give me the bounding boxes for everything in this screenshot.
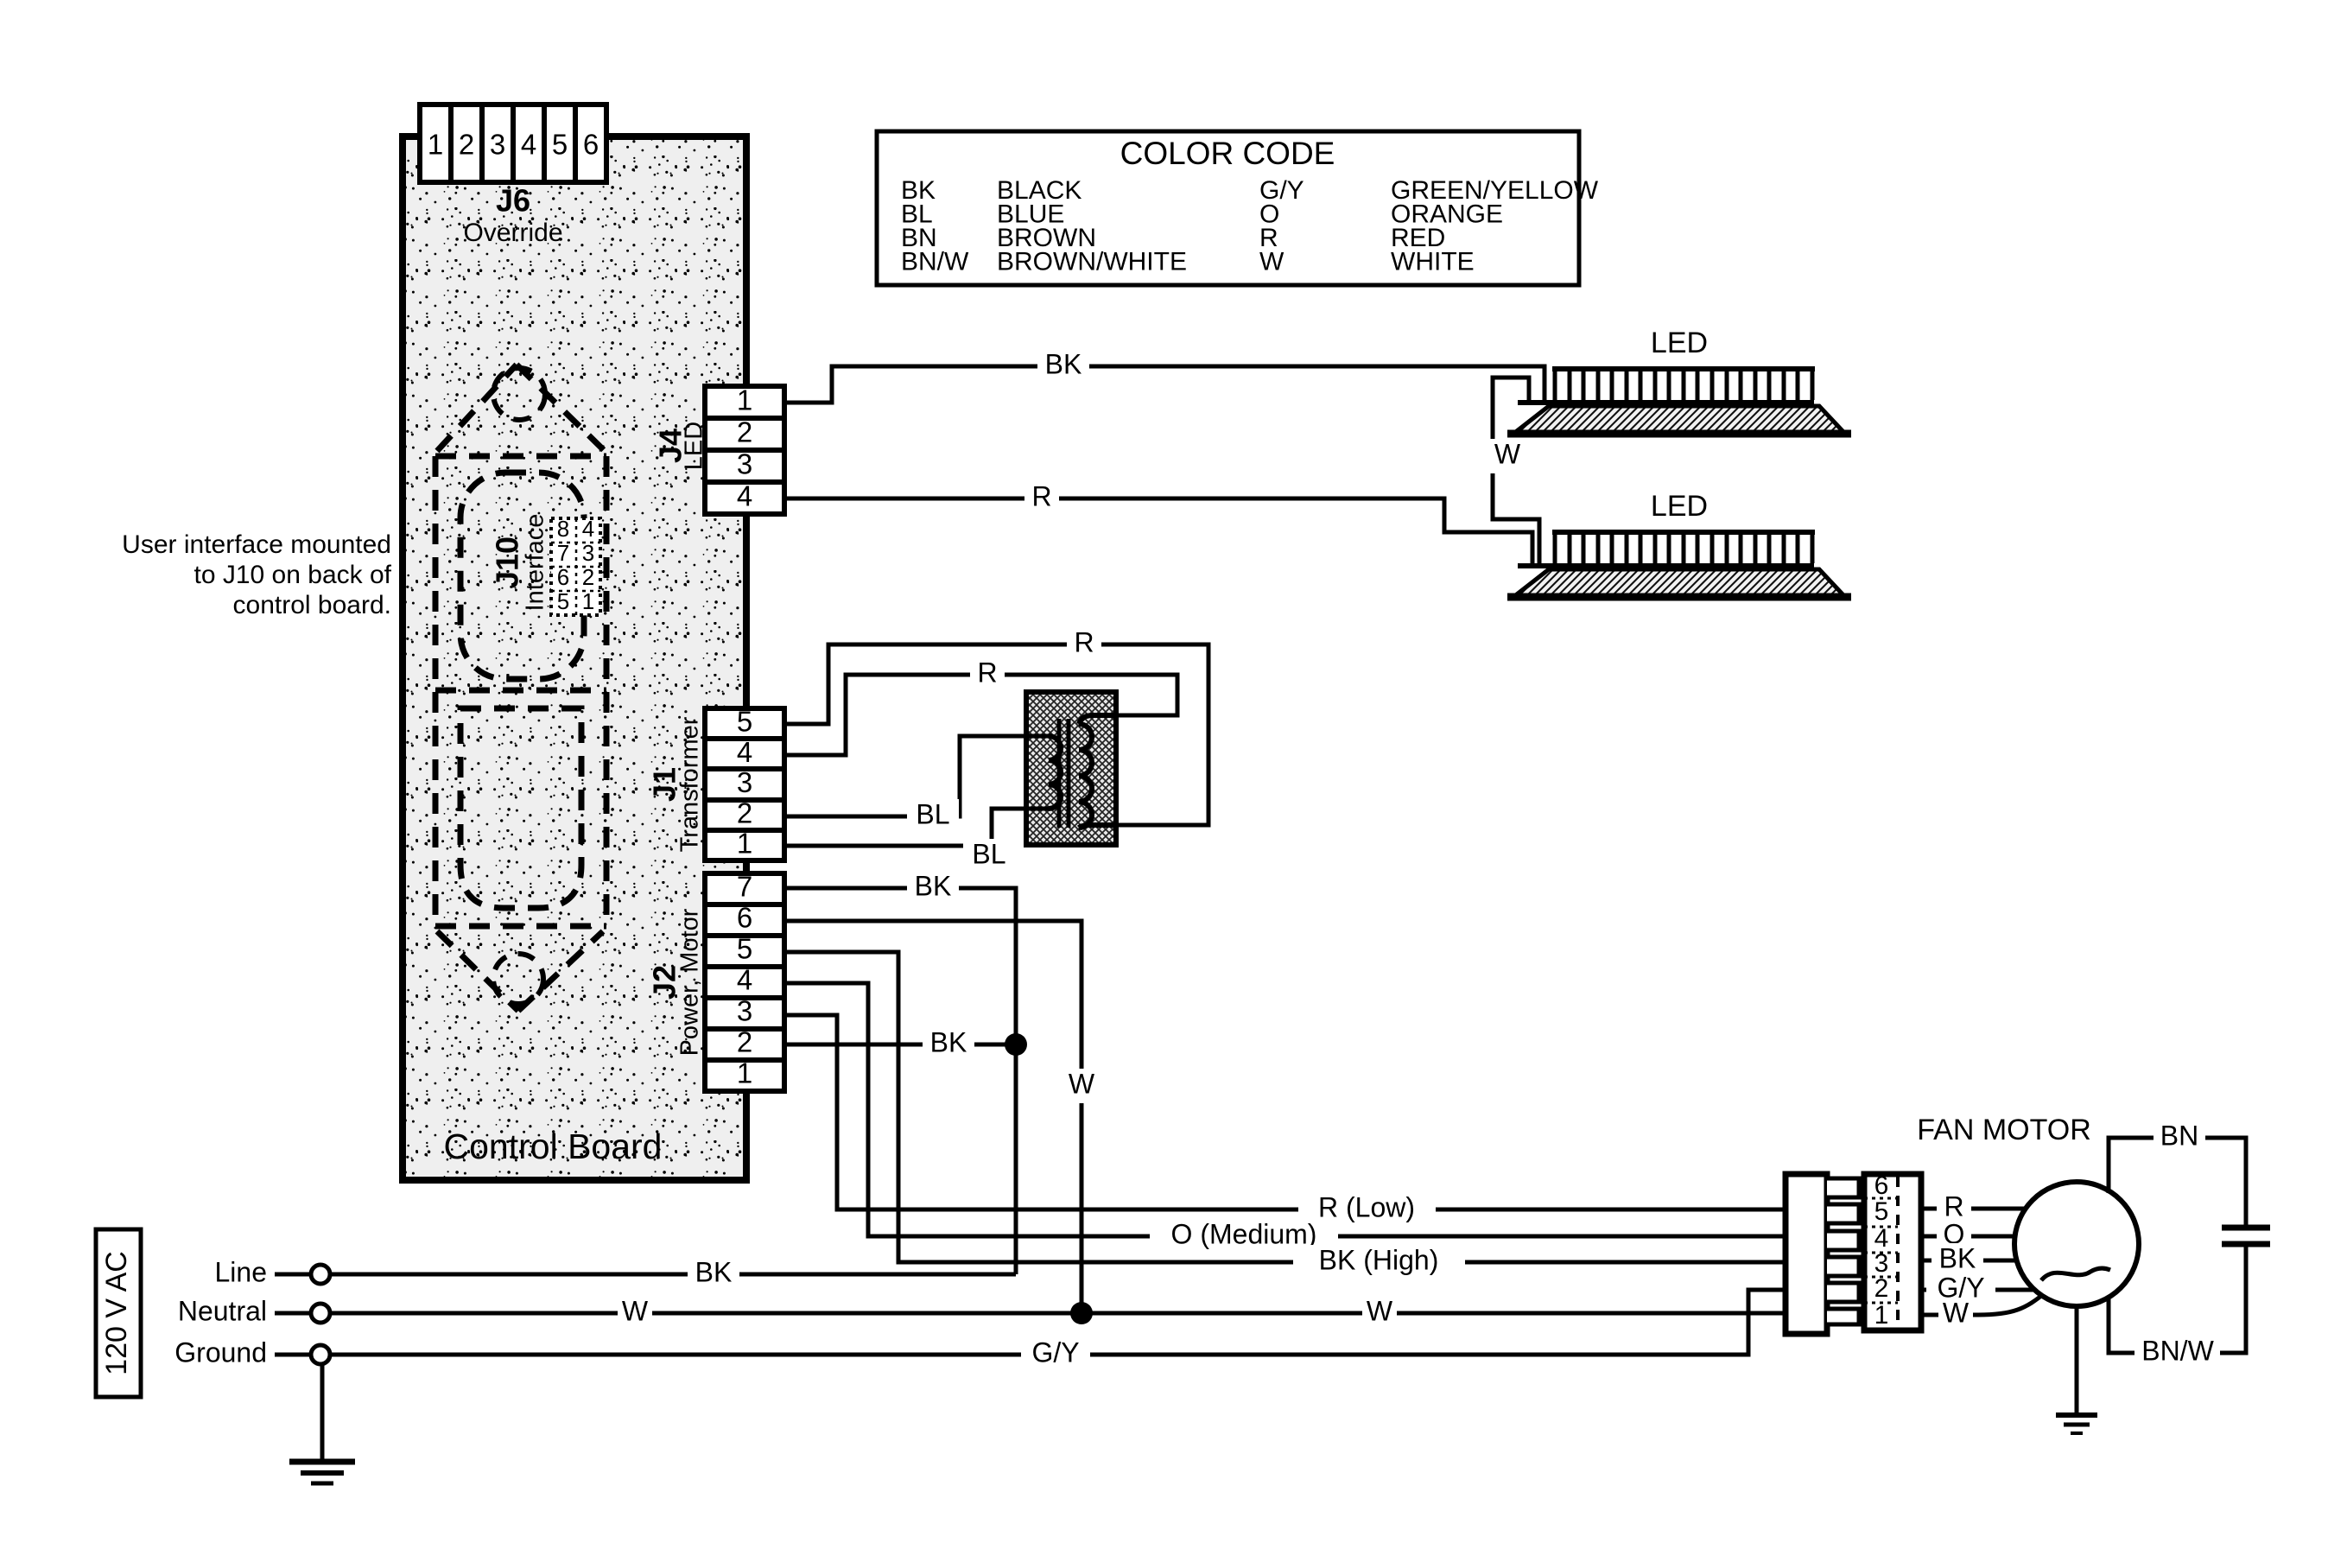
- wire W: LED1 to LED2: [1493, 378, 1539, 564]
- wire R: J4 pin4 to LED2: [784, 498, 1532, 564]
- svg-text:5: 5: [1874, 1197, 1889, 1226]
- svg-text:1: 1: [582, 588, 594, 614]
- J10 user-interface dashed outline: [435, 365, 606, 1011]
- svg-text:BK: BK: [915, 870, 952, 901]
- svg-text:R: R: [977, 657, 997, 688]
- motor earth ground symbol: [2056, 1415, 2097, 1433]
- connector J2: [705, 871, 784, 1091]
- connector J4: [705, 384, 784, 514]
- label R: [1024, 481, 1059, 516]
- wire BK(High): J2 pin5 to fan connector: [784, 952, 1787, 1262]
- label BL: [907, 799, 959, 834]
- svg-text:3: 3: [737, 448, 752, 480]
- svg-text:5: 5: [552, 129, 568, 161]
- terminal Neutral: [275, 1311, 311, 1316]
- wire G/Y: Ground to fan connector: [330, 1290, 1787, 1355]
- svg-text:3: 3: [737, 766, 752, 798]
- svg-text:Transformer: Transformer: [676, 716, 704, 852]
- svg-text:Neutral: Neutral: [178, 1295, 267, 1326]
- svg-text:Override: Override: [463, 219, 562, 247]
- 120 V AC source box: [96, 1229, 141, 1397]
- wire to earth ground: [320, 1364, 325, 1462]
- svg-text:6: 6: [557, 564, 569, 590]
- wire R: J1 pin5 to transformer secondary bottom: [784, 644, 1208, 825]
- svg-text:Control Board: Control Board: [444, 1127, 663, 1166]
- svg-text:1: 1: [737, 828, 752, 860]
- svg-text:Power, Motor: Power, Motor: [676, 908, 704, 1056]
- svg-text:6: 6: [1874, 1171, 1889, 1200]
- svg-text:Interface: Interface: [522, 514, 549, 612]
- svg-text:3: 3: [582, 540, 594, 566]
- svg-text:8: 8: [557, 516, 569, 542]
- svg-text:W: W: [1259, 247, 1285, 276]
- wire O to motor: [1921, 1235, 2015, 1239]
- svg-text:4: 4: [521, 129, 536, 161]
- svg-text:2: 2: [459, 129, 474, 161]
- wire R to motor: [1921, 1207, 2026, 1211]
- label W: [1490, 439, 1525, 473]
- control board: [403, 136, 746, 1180]
- label J6 Override: [463, 183, 562, 247]
- svg-text:R: R: [1031, 480, 1051, 511]
- svg-text:BN: BN: [2160, 1120, 2198, 1151]
- label BK (pin7): [907, 871, 959, 905]
- svg-text:3: 3: [737, 995, 752, 1027]
- terminal Ground: [275, 1353, 311, 1357]
- color code table: [877, 131, 1599, 285]
- wire BN/W: capacitor to motor: [2109, 1247, 2246, 1353]
- label BN/W: [2135, 1336, 2220, 1370]
- wire to motor ground: [2075, 1306, 2079, 1415]
- label W (neutral): [618, 1296, 652, 1330]
- svg-text:W: W: [1494, 438, 1521, 469]
- svg-text:BK: BK: [930, 1026, 967, 1057]
- wire O(Medium): J2 pin4 to fan connector: [784, 983, 1787, 1236]
- label W (vertical): [1064, 1069, 1099, 1103]
- wire BK: Line: [330, 1273, 1016, 1277]
- label J4 LED: [653, 422, 708, 470]
- svg-text:LED: LED: [681, 422, 708, 470]
- svg-text:1: 1: [428, 129, 443, 161]
- label R (Low): [1298, 1192, 1436, 1227]
- J10 pin table: [551, 516, 600, 615]
- svg-text:W: W: [622, 1295, 649, 1326]
- svg-text:BN/W: BN/W: [2141, 1335, 2214, 1366]
- svg-text:G/Y: G/Y: [1031, 1336, 1079, 1368]
- label BN: [2154, 1120, 2205, 1155]
- capacitor C1: [2222, 1228, 2270, 1244]
- wire R: J1 pin4 to transformer secondary top: [784, 675, 1177, 755]
- svg-text:4: 4: [737, 964, 752, 996]
- label BK (pin2): [923, 1027, 974, 1062]
- svg-text:control board.: control board.: [233, 591, 391, 619]
- svg-text:2: 2: [737, 1026, 752, 1058]
- wire G/Y to motor: [1921, 1288, 2035, 1292]
- label J10 Interface: [490, 514, 549, 612]
- junction dot BK: [1005, 1033, 1027, 1056]
- svg-text:BN/W: BN/W: [901, 247, 969, 276]
- label G/Y: [1021, 1337, 1090, 1372]
- svg-text:1: 1: [737, 384, 752, 416]
- svg-text:2: 2: [737, 416, 752, 448]
- fan motor M1: [1917, 1114, 2139, 1306]
- svg-text:W: W: [1943, 1297, 1970, 1328]
- svg-text:BROWN/WHITE: BROWN/WHITE: [997, 247, 1187, 276]
- svg-text:Ground: Ground: [174, 1336, 267, 1368]
- svg-text:COLOR CODE: COLOR CODE: [1120, 136, 1335, 171]
- wire W to motor: [1921, 1292, 2046, 1315]
- svg-text:BK: BK: [1939, 1242, 1976, 1273]
- wire BL: J1 pin2 to transformer primary top: [784, 736, 1049, 816]
- svg-text:120 V AC: 120 V AC: [100, 1251, 133, 1375]
- svg-text:R (Low): R (Low): [1318, 1191, 1415, 1222]
- svg-text:4: 4: [737, 480, 752, 512]
- label J2 Power, Motor: [647, 908, 704, 1056]
- earth ground symbol: [289, 1462, 355, 1483]
- wire BK to motor: [1921, 1259, 2018, 1263]
- svg-text:Line: Line: [215, 1256, 268, 1287]
- connector J6: [420, 105, 606, 182]
- svg-text:W: W: [1367, 1295, 1393, 1326]
- label O (Medium): [1150, 1219, 1338, 1254]
- svg-text:BK (High): BK (High): [1319, 1244, 1439, 1275]
- svg-text:7: 7: [737, 871, 752, 903]
- svg-text:to J10 on back of: to J10 on back of: [194, 561, 392, 589]
- wire BK: J2 pin2 to junction: [784, 1043, 1016, 1047]
- svg-text:5: 5: [737, 706, 752, 738]
- svg-text:User interface mounted: User interface mounted: [122, 530, 391, 559]
- svg-text:6: 6: [737, 902, 752, 934]
- label J1 Transformer: [647, 716, 704, 852]
- wire BK: J4 pin1 to LED1: [784, 366, 1545, 403]
- svg-text:5: 5: [737, 933, 752, 965]
- svg-text:BK: BK: [695, 1256, 733, 1287]
- label R (top): [1067, 627, 1101, 662]
- label BK: [1037, 349, 1089, 384]
- wire BN: motor to capacitor: [2109, 1138, 2246, 1225]
- label BK (line): [688, 1257, 739, 1292]
- svg-text:LED: LED: [1651, 327, 1708, 359]
- transformer T1: [1026, 692, 1116, 845]
- svg-text:1: 1: [1874, 1301, 1889, 1330]
- connector J1: [705, 706, 784, 860]
- svg-text:BL: BL: [972, 838, 1005, 869]
- label BL (second): [963, 839, 1015, 873]
- svg-text:1: 1: [737, 1057, 752, 1089]
- label BK (High): [1293, 1245, 1465, 1279]
- svg-text:WHITE: WHITE: [1391, 247, 1475, 276]
- wire W: Neutral to fan connector: [330, 1311, 1787, 1316]
- svg-text:BL: BL: [916, 798, 949, 829]
- label W (neutral right): [1362, 1296, 1397, 1330]
- wire BK: J2 pin7 down: [784, 888, 1016, 1274]
- junction dot W: [1070, 1302, 1093, 1324]
- wire BL: J1 pin1 to transformer primary bottom: [784, 809, 1049, 846]
- wire W: J2 pin6 down to neutral: [784, 921, 1082, 1313]
- LED 1: [1507, 327, 1851, 434]
- svg-text:J6: J6: [496, 183, 530, 219]
- svg-text:2: 2: [737, 797, 752, 828]
- svg-text:6: 6: [583, 129, 599, 161]
- svg-text:2: 2: [1874, 1274, 1889, 1303]
- LED 2: [1507, 490, 1851, 597]
- svg-text:7: 7: [557, 540, 569, 566]
- fan motor connector (plug): [1786, 1174, 1859, 1334]
- svg-text:2: 2: [582, 564, 594, 590]
- svg-text:R: R: [1944, 1190, 1963, 1222]
- svg-text:LED: LED: [1651, 490, 1708, 523]
- svg-text:3: 3: [490, 129, 505, 161]
- svg-text:4: 4: [737, 736, 752, 768]
- svg-text:BK: BK: [1045, 348, 1082, 379]
- svg-text:R: R: [1074, 626, 1094, 657]
- terminal Line: [275, 1273, 311, 1277]
- svg-text:5: 5: [557, 588, 569, 614]
- svg-text:W: W: [1069, 1068, 1095, 1099]
- label R (second): [970, 657, 1005, 692]
- note: user interface mounted: [122, 530, 391, 619]
- wire R(Low): J2 pin3 to fan connector: [784, 1015, 1787, 1209]
- svg-text:J10: J10: [490, 536, 525, 588]
- svg-text:4: 4: [582, 516, 594, 542]
- fan motor connector (receptacle): [1864, 1171, 1921, 1330]
- svg-text:FAN MOTOR: FAN MOTOR: [1917, 1114, 2091, 1146]
